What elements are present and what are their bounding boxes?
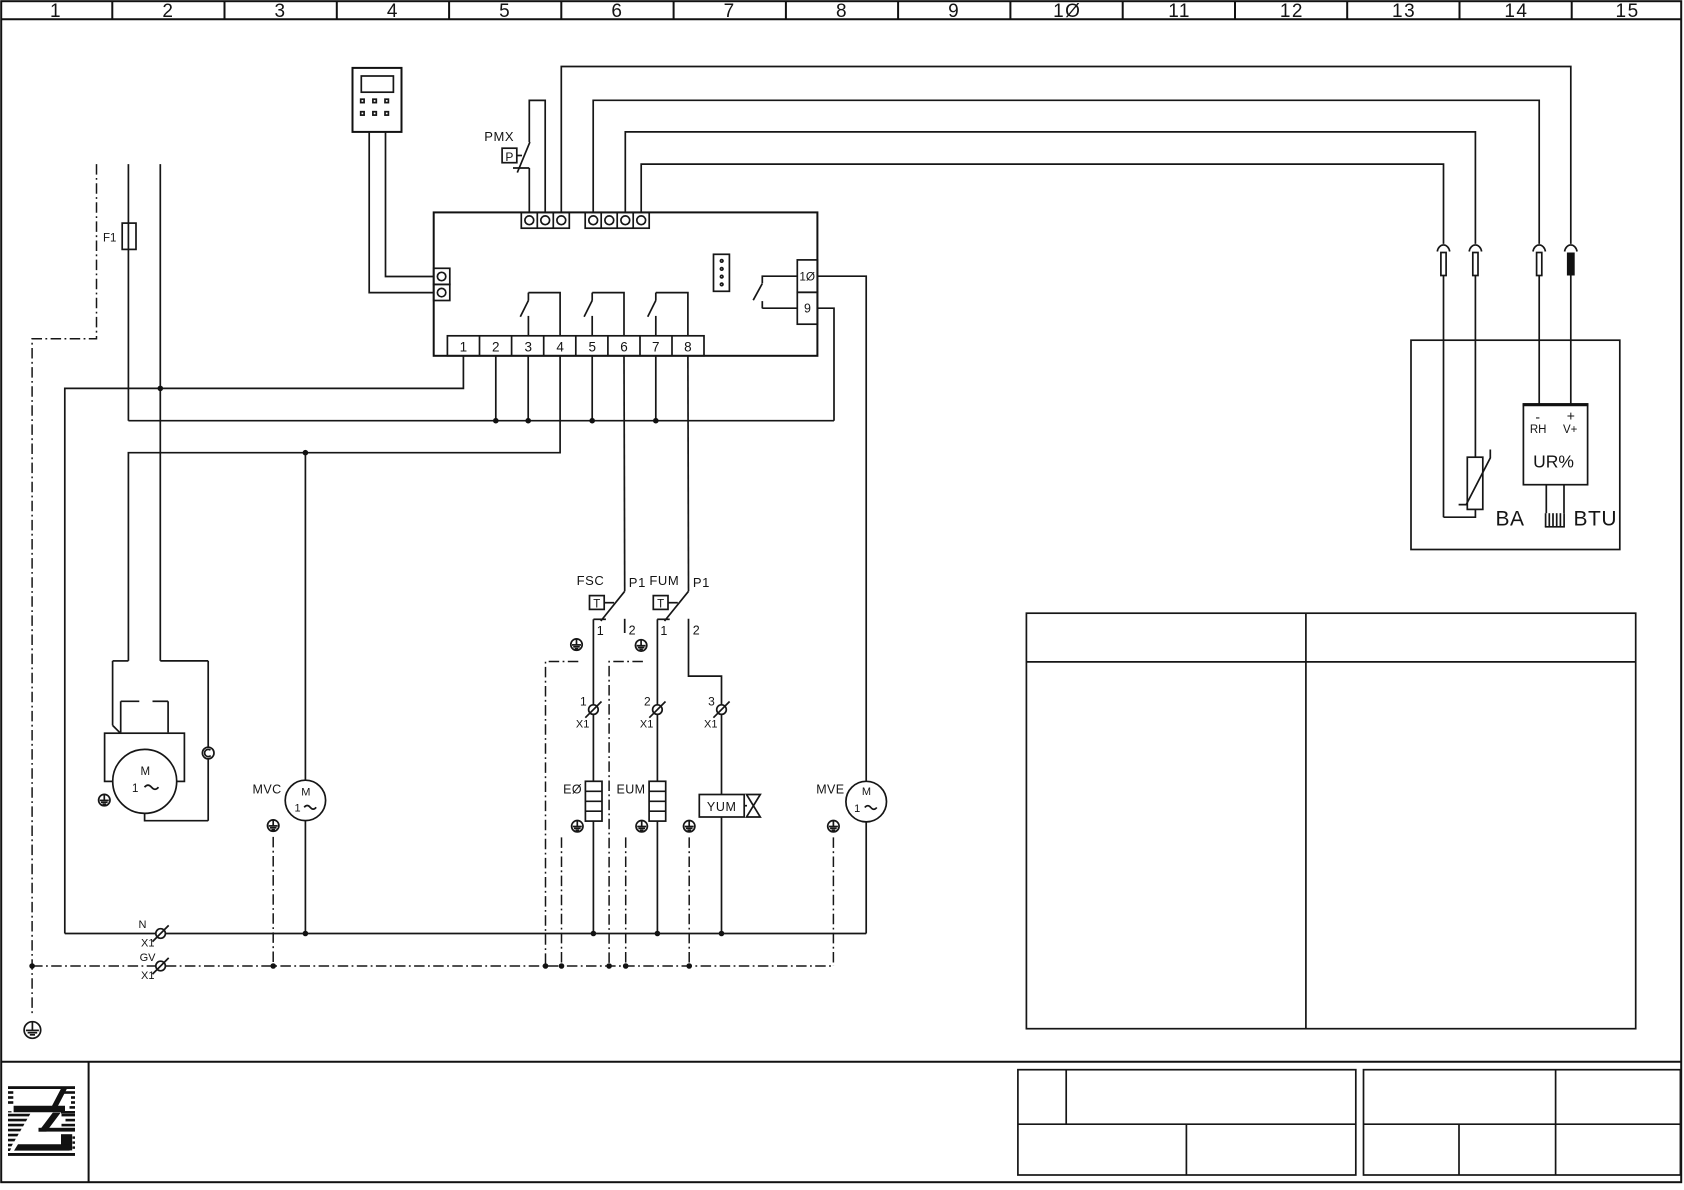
humidity sensor BTU box UR%: [1523, 404, 1589, 485]
svg-text:8: 8: [836, 1, 848, 22]
svg-text:1: 1: [460, 340, 468, 355]
pressure switch PMX contact: [513, 142, 530, 173]
motor MVE circle: [846, 781, 887, 822]
svg-text:X1: X1: [704, 719, 717, 731]
controller output terminal box 9: [797, 292, 817, 324]
protective earth dash-dot line from supply: [32, 164, 96, 1015]
ground PE MVE: [828, 821, 839, 832]
ground PE FUM: [635, 640, 646, 651]
solenoid valve YUM box: [699, 795, 744, 818]
svg-text:9: 9: [948, 1, 960, 22]
ruler strip bottom line: [1, 18, 1681, 20]
wire terminal8 to FUM: [687, 356, 690, 592]
ruler column dividers: [112, 1, 1571, 19]
svg-text:BTU: BTU: [1574, 508, 1618, 531]
terminal pin GV X1: [140, 952, 169, 982]
svg-text:P1: P1: [629, 575, 646, 590]
wire shield 4 into sensor box: [1570, 276, 1572, 405]
controller bottom terminal strip 1-8: [447, 336, 704, 356]
humidity sensor probe comb: [1545, 485, 1565, 527]
sensor enclosure box: [1411, 340, 1620, 549]
svg-text:UR%: UR%: [1533, 452, 1574, 472]
wire terminal7 drop: [655, 356, 657, 421]
ruler column numbers 1-15: [50, 1, 1640, 22]
svg-text:P1: P1: [693, 575, 710, 590]
relay contact K2 (terminals 5-6): [584, 293, 624, 336]
dash-dot PE MVC to GV bus: [272, 837, 274, 966]
legend table (empty): [1026, 613, 1635, 1028]
svg-text:3: 3: [708, 695, 715, 709]
svg-text:4: 4: [387, 1, 399, 22]
junction PE EUM on GV bus: [623, 963, 629, 969]
wire heater EUM to N bus: [656, 821, 658, 933]
company logo (striped Z mark): [8, 1086, 75, 1156]
thermal sensor T-box FSC: [590, 596, 615, 611]
svg-text:PMX: PMX: [484, 129, 514, 144]
dash-dot PE MVE to GV bus corner: [832, 837, 834, 966]
controller top terminal block A (3 poles): [521, 212, 569, 228]
svg-text:MVE: MVE: [816, 783, 844, 797]
wire L feed rail (fuse to output 9): [128, 420, 834, 422]
ground PE E0: [572, 821, 583, 832]
svg-text:13: 13: [1392, 1, 1416, 22]
svg-text:1: 1: [854, 803, 860, 815]
wire shield 3 into sensor box: [1538, 276, 1540, 405]
wire shield 2 into sensor box: [1474, 276, 1476, 458]
svg-text:6: 6: [611, 1, 623, 22]
wire MVE to N bus corner: [865, 822, 867, 934]
svg-text:GV: GV: [140, 952, 157, 964]
wire W3 terminal circle 6 to thermistor: [625, 132, 1475, 244]
junction PE YUM on GV bus: [686, 963, 692, 969]
wire pin X1-2 to heater EUM: [656, 714, 658, 781]
wire heater E0 to N bus: [592, 821, 594, 933]
wire terminal2 drop: [495, 356, 497, 421]
title block right table: [1364, 1070, 1681, 1175]
svg-text:YUM: YUM: [707, 800, 737, 814]
cable shield termination 4 (filled): [1565, 245, 1577, 276]
dash-dot PE YUM to GV bus: [688, 837, 690, 966]
svg-text:14: 14: [1504, 1, 1528, 22]
junction YUM on N bus: [719, 931, 725, 937]
motor M circle: [113, 749, 177, 813]
pressure switch PMX P-box: [502, 148, 522, 164]
svg-text:P: P: [505, 150, 513, 164]
svg-text:T: T: [657, 598, 664, 610]
wire terminal5 drop: [591, 356, 593, 421]
main earth electrode symbol: [24, 1022, 41, 1039]
svg-text:M: M: [141, 766, 151, 778]
controller U1 main box: [434, 212, 818, 355]
svg-text:V+: V+: [1563, 424, 1578, 436]
dash-dot PE EUM to GV bus: [625, 837, 627, 966]
svg-text:1: 1: [132, 783, 138, 795]
svg-text:EUM: EUM: [617, 782, 646, 796]
svg-text:FUM: FUM: [649, 573, 679, 588]
svg-text:5: 5: [499, 1, 511, 22]
wire W4 terminal circle 7 to thermistor return: [641, 164, 1443, 244]
capacitor C1 on motor M: [202, 747, 214, 759]
controller top terminal block B (4 poles): [585, 212, 649, 228]
svg-text:M: M: [862, 786, 871, 798]
svg-text:7: 7: [724, 1, 736, 22]
svg-text:N: N: [139, 919, 147, 931]
N bus neutral rail: [65, 933, 866, 935]
supply line N: [159, 164, 161, 661]
wire thermistor bottom return: [1444, 509, 1476, 517]
svg-text:X1: X1: [141, 938, 154, 950]
thermal sensor T-box FUM: [653, 596, 678, 611]
svg-text:2: 2: [693, 624, 700, 638]
wire W1 terminal circle 3 to humidity sensor V+: [561, 67, 1571, 244]
junction PE FUM on GV bus: [606, 963, 612, 969]
junction EUM on N bus: [655, 931, 661, 937]
wire pin X1-1 to heater E0: [592, 714, 594, 781]
terminal pin N X1: [139, 919, 169, 950]
svg-text:1: 1: [50, 1, 62, 22]
ground PE MVC: [268, 820, 279, 831]
thermal cutout FSC contact: [593, 591, 624, 633]
junction PE E0 on GV bus: [559, 963, 565, 969]
dash-dot PE FUM to GV bus: [609, 662, 643, 967]
svg-text:T: T: [593, 598, 600, 610]
wire rail terminal1 to N corner: [65, 356, 464, 934]
svg-text:RH: RH: [1530, 424, 1547, 436]
svg-text:1Ø: 1Ø: [1053, 1, 1081, 22]
svg-text:12: 12: [1280, 1, 1304, 22]
wire PMX upper lead to terminal circle 2: [529, 100, 545, 212]
svg-text:M: M: [301, 787, 310, 799]
junction MVC tap: [303, 450, 309, 456]
motor M junction box: [105, 733, 185, 781]
keypad connector on controller left edge: [434, 268, 450, 300]
logo cell divider: [88, 1062, 90, 1183]
svg-text:11: 11: [1168, 1, 1191, 22]
junction PE MVC on GV bus: [270, 963, 276, 969]
svg-text:1: 1: [660, 624, 667, 638]
svg-text:2: 2: [162, 1, 174, 22]
svg-text:X1: X1: [640, 719, 653, 731]
motor M terminal connector: [121, 701, 168, 732]
svg-text:9: 9: [804, 302, 811, 316]
junction N rail / supply N: [158, 386, 164, 392]
junction terminal7: [653, 418, 659, 424]
wire keypad to connector (right conductor): [386, 132, 434, 277]
junction terminal3: [525, 418, 531, 424]
dash-dot PE E0 to GV bus: [561, 837, 563, 966]
svg-text:2: 2: [629, 624, 636, 638]
wire terminal3 drop: [527, 356, 529, 421]
title block strip top line: [1, 1061, 1681, 1063]
cable shield termination 1: [1437, 245, 1449, 276]
svg-text:3: 3: [275, 1, 287, 22]
wire FUM contact1 to pin X1-2: [656, 619, 658, 705]
fuse F1 body: [122, 223, 136, 249]
heater element EUM: [649, 781, 666, 821]
wire valve YUM to N bus: [721, 817, 723, 934]
wire terminal4 to motor M feed: [128, 356, 560, 661]
wire output 9 to L-feed rail: [817, 308, 834, 421]
wire output 10 to MVE motor: [817, 276, 866, 781]
junction PE FSC on GV bus: [543, 963, 549, 969]
GV protective earth dash-dot bus: [32, 965, 833, 967]
junction terminal2: [493, 418, 499, 424]
svg-text:4: 4: [556, 340, 564, 355]
svg-text:15: 15: [1616, 1, 1640, 22]
svg-text:MVC: MVC: [253, 783, 282, 797]
svg-text:2: 2: [492, 340, 500, 355]
svg-text:-: -: [1535, 409, 1540, 425]
heater element E0: [585, 781, 602, 821]
cable shield termination 2: [1469, 245, 1481, 276]
valve YUM body symbol: [744, 795, 760, 818]
keypad HMI display unit: [353, 68, 402, 132]
svg-text:EØ: EØ: [563, 782, 582, 796]
svg-text:+: +: [1567, 408, 1575, 424]
wire W2 terminal circle 4 to humidity sensor RH: [593, 100, 1539, 244]
wire terminal6 to FSC: [623, 356, 626, 592]
svg-text:1Ø: 1Ø: [799, 270, 815, 284]
relay contact K3 (terminals 7-8): [648, 293, 688, 336]
connector pin X1-3: [704, 695, 730, 731]
ground PE EUM: [636, 821, 647, 832]
wire PMX lower lead to terminal circle 1: [528, 168, 530, 212]
svg-text:8: 8: [684, 340, 692, 355]
svg-text:BA: BA: [1496, 508, 1525, 531]
svg-text:5: 5: [588, 340, 596, 355]
ground PE FSC: [571, 639, 582, 650]
connector pin X1-2: [640, 695, 666, 731]
cable shield termination 3: [1533, 245, 1545, 276]
wire MVC drop: [304, 453, 306, 781]
wire FSC contact1 to pin X1-1: [592, 619, 594, 705]
wire keypad to connector (left conductor): [369, 132, 434, 293]
svg-text:3: 3: [524, 340, 532, 355]
svg-text:X1: X1: [141, 970, 154, 982]
wire pin X1-3 to valve YUM: [721, 714, 723, 794]
title block left table: [1018, 1070, 1356, 1175]
relay contact K4 (outputs 10-9): [753, 276, 797, 308]
wire FUM throw 2 to pin X1-3: [689, 619, 722, 705]
wire MVC to N bus: [304, 821, 306, 934]
connector pin X1-1: [576, 695, 602, 731]
wire shield 1 into sensor box: [1443, 276, 1445, 518]
controller output terminal box 10: [797, 260, 817, 292]
motor MVC circle: [285, 780, 325, 820]
svg-text:2: 2: [644, 695, 651, 709]
ground PE YUM: [684, 821, 695, 832]
relay contact K1 (terminals 3-4): [520, 293, 560, 336]
junction terminal5: [589, 418, 595, 424]
svg-text:FSC: FSC: [577, 573, 605, 588]
svg-text:6: 6: [620, 340, 628, 355]
thermistor BA body: [1459, 450, 1491, 510]
supply line L with fuse F1: [127, 164, 129, 421]
svg-text:1: 1: [580, 695, 587, 709]
thermal cutout FUM contact: [657, 591, 688, 621]
dash-dot PE FSC to GV bus: [546, 662, 579, 967]
svg-text:X1: X1: [576, 719, 589, 731]
junction E0 on N bus: [591, 931, 597, 937]
controller internal 4-pin header: [714, 254, 730, 291]
motor M supply fan assembly: [113, 661, 209, 821]
svg-text:1: 1: [597, 624, 604, 638]
junction MVC on N bus: [303, 931, 309, 937]
junction GV bus left corner: [29, 963, 35, 969]
svg-text:F1: F1: [103, 233, 116, 245]
svg-text:1: 1: [294, 803, 300, 815]
ground PE motor M: [99, 794, 110, 805]
svg-text:7: 7: [652, 340, 660, 355]
